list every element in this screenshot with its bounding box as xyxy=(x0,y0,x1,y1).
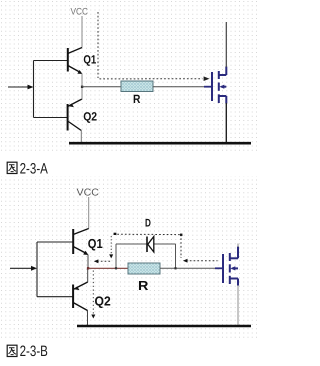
diode branch left vertical (B) xyxy=(115,244,117,268)
wire Q1 base lead (B) xyxy=(37,241,73,243)
dashed annotation box top (B) xyxy=(114,233,182,235)
svg-text:VCC: VCC xyxy=(77,188,100,199)
svg-text:2-3-A: 2-3-A xyxy=(20,160,48,177)
dotted annotation vertical through Q2 with down arrow (B) xyxy=(92,271,94,314)
wire base bus (B) xyxy=(36,242,38,297)
wire Q2 collector to ground (B) xyxy=(87,310,89,326)
wire Q2 base lead (B) xyxy=(37,296,73,298)
svg-text:Q2: Q2 xyxy=(83,110,97,124)
node input arrow (A) xyxy=(8,86,29,88)
svg-text:Q1: Q1 xyxy=(88,236,103,251)
wire VCC to Q1 collector (B) xyxy=(88,197,90,229)
diode D (B) xyxy=(146,237,148,253)
transistor Q1 (A) NPN xyxy=(68,48,82,73)
MOSFET M1 (A) xyxy=(212,67,226,104)
ground rail (A) xyxy=(69,142,251,145)
wire resistor to gate (B) xyxy=(160,267,216,269)
resistor R (B) xyxy=(128,263,160,274)
svg-text:VCC: VCC xyxy=(71,7,89,18)
wire Q1 base lead (A) xyxy=(34,60,68,62)
dashed annotation left vertical with arrow (B) xyxy=(110,236,112,255)
wire source down (B) xyxy=(237,286,239,327)
wire resistor to gate (A) xyxy=(153,86,205,88)
caption 图2-3-B xyxy=(7,345,17,356)
wire node to resistor, red (B) xyxy=(88,267,128,269)
node junction (B) xyxy=(87,267,89,269)
wire Q2 base lead (A) xyxy=(34,117,68,119)
transistor Q2 (A) PNP xyxy=(68,99,82,131)
wire Q1 emitter to node (A) xyxy=(81,74,83,88)
transistor Q2 (B) PNP xyxy=(73,282,88,311)
MOSFET M1 (B) xyxy=(223,247,238,286)
diode branch right vertical (B) xyxy=(175,244,177,268)
wire node to Q2 emitter (A) xyxy=(81,87,83,99)
wire base bus (A) xyxy=(33,61,35,118)
wire node to Q2 emitter (B) xyxy=(87,268,89,282)
node input arrow (B) xyxy=(10,267,33,269)
wire Q1 emitter to node (B) xyxy=(87,255,89,269)
svg-text:2-3-B: 2-3-B xyxy=(20,343,48,360)
dashed annotation right horizontal with left arrow (B) xyxy=(186,260,218,262)
node junction (A) xyxy=(81,86,83,88)
wire drain up (A) xyxy=(225,22,227,67)
dashed annotation left horizontal with left arrow (B) xyxy=(97,260,111,262)
svg-text:Q2: Q2 xyxy=(95,294,111,309)
svg-text:Q1: Q1 xyxy=(83,53,96,67)
wire source down (A) xyxy=(225,103,227,144)
diode branch top wire (B) xyxy=(116,243,147,245)
resistor R (A) xyxy=(121,81,153,92)
ground rail (B) xyxy=(77,325,251,328)
wire Q2 collector to ground (A) xyxy=(80,130,82,144)
dashed annotation right vertical (B) xyxy=(180,235,182,259)
svg-text:R: R xyxy=(138,278,149,293)
svg-text:R: R xyxy=(133,92,141,106)
wire drain stub up (B) xyxy=(237,244,239,248)
svg-text:D: D xyxy=(145,218,151,230)
wire VCC to Q1 collector (A) xyxy=(81,16,83,48)
dashed annotation path from VCC to gate (A) xyxy=(97,12,99,78)
transistor Q1 (B) NPN xyxy=(73,229,89,255)
junction dots diode branch (B) xyxy=(115,267,117,269)
wire node to resistor (A) xyxy=(82,86,121,88)
caption 图2-3-A xyxy=(7,162,17,173)
